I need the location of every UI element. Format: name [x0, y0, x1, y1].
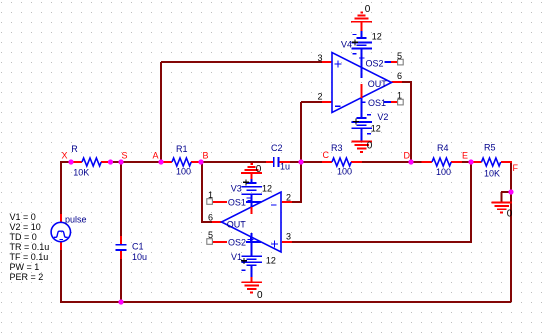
svg-text:12: 12: [266, 255, 276, 265]
svg-text:2: 2: [318, 92, 323, 102]
svg-text:10K: 10K: [73, 168, 89, 178]
svg-text:V2 = 10: V2 = 10: [10, 222, 41, 232]
svg-text:0: 0: [367, 140, 373, 151]
svg-text:3: 3: [318, 53, 323, 63]
svg-text:2: 2: [286, 193, 291, 203]
svg-text:V2: V2: [377, 112, 388, 122]
svg-text:6: 6: [397, 71, 402, 81]
svg-text:0: 0: [365, 4, 371, 15]
svg-text:0: 0: [257, 290, 263, 301]
svg-text:C: C: [323, 150, 330, 160]
svg-text:0: 0: [256, 164, 262, 175]
svg-text:R1: R1: [176, 144, 188, 154]
svg-text:1: 1: [397, 91, 402, 101]
svg-text:X: X: [62, 151, 68, 161]
svg-text:PW = 1: PW = 1: [10, 262, 40, 272]
svg-text:D: D: [404, 151, 411, 161]
svg-text:OUT: OUT: [368, 79, 388, 89]
svg-text:100: 100: [337, 166, 352, 176]
svg-text:C1: C1: [132, 241, 144, 251]
svg-text:100: 100: [436, 167, 451, 177]
svg-text:6: 6: [208, 213, 213, 223]
svg-text:TF = 0.1u: TF = 0.1u: [10, 252, 49, 262]
svg-text:V4: V4: [341, 40, 352, 50]
svg-text:OS2: OS2: [228, 238, 246, 248]
svg-text:TR = 0.1u: TR = 0.1u: [10, 242, 50, 252]
svg-text:V1: V1: [231, 252, 242, 262]
svg-text:10u: 10u: [132, 252, 147, 262]
svg-text:0: 0: [507, 209, 513, 220]
svg-text:12: 12: [372, 31, 382, 41]
svg-text:OS1: OS1: [228, 198, 246, 208]
svg-text:TD = 0: TD = 0: [10, 232, 37, 242]
svg-text:OS1: OS1: [368, 98, 386, 108]
svg-text:10K: 10K: [484, 169, 500, 179]
svg-text:5: 5: [397, 51, 402, 61]
svg-text:pulse: pulse: [65, 214, 87, 224]
svg-text:R5: R5: [484, 143, 496, 153]
svg-text:E: E: [462, 150, 468, 160]
svg-text:3: 3: [286, 232, 291, 242]
svg-text:R: R: [71, 144, 78, 154]
svg-text:12: 12: [262, 184, 272, 194]
svg-text:5: 5: [208, 230, 213, 240]
svg-text:OUT: OUT: [227, 219, 247, 229]
svg-text:OS2: OS2: [366, 59, 384, 69]
svg-text:V3: V3: [231, 184, 242, 194]
svg-text:R3: R3: [331, 143, 343, 153]
svg-text:100: 100: [176, 166, 191, 176]
svg-text:F: F: [513, 163, 519, 173]
svg-text:R4: R4: [437, 143, 449, 153]
svg-text:1: 1: [208, 190, 213, 200]
svg-text:S: S: [122, 151, 128, 161]
svg-text:1u: 1u: [280, 161, 290, 171]
svg-text:B: B: [203, 151, 209, 161]
svg-text:PER = 2: PER = 2: [10, 272, 44, 282]
svg-text:V1 = 0: V1 = 0: [10, 212, 36, 222]
svg-text:A: A: [153, 151, 159, 161]
svg-text:C2: C2: [271, 143, 283, 153]
svg-text:12: 12: [371, 123, 381, 133]
